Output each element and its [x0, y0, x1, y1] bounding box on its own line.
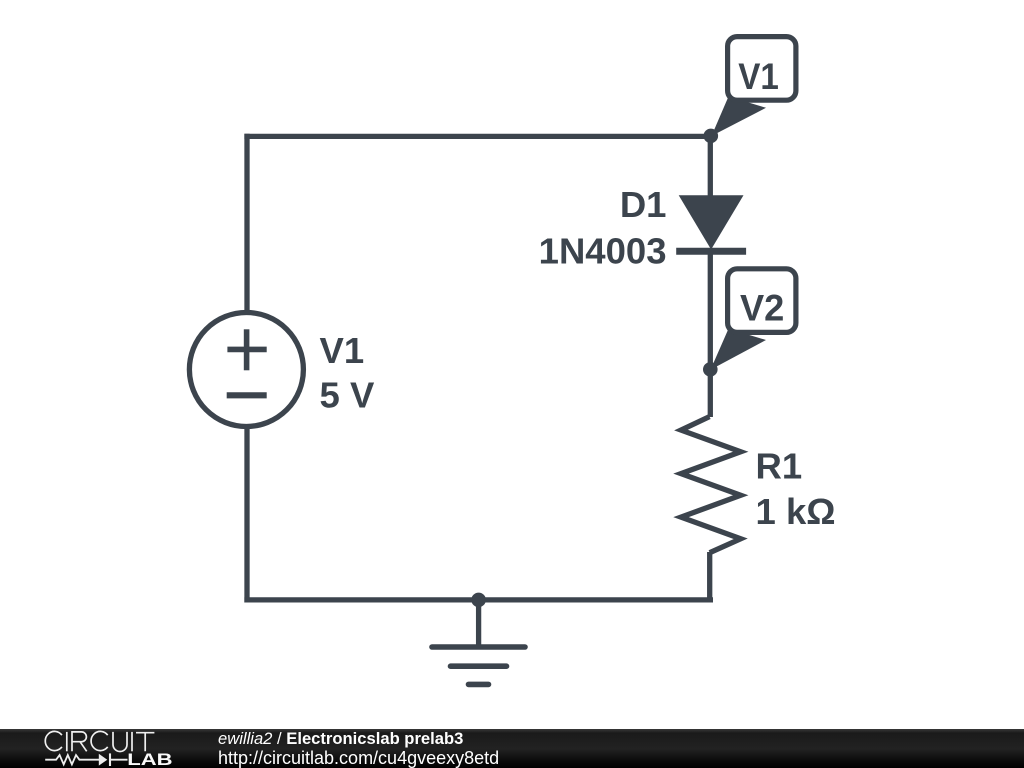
CircuitLab logo wordmark CIRCUIT [0, 729, 220, 768]
node V1 junction dot [704, 129, 719, 144]
wire bottom (source - to R1 bottom, through ground node) [244, 597, 713, 602]
svg-text:V1: V1 [320, 330, 365, 371]
wire right lower (R1 bottom to bottom corner) [707, 552, 712, 603]
svg-text:D1: D1 [620, 184, 667, 225]
wire right upper (node V1 to D1 anode) [708, 134, 713, 197]
svg-text:1 kΩ: 1 kΩ [756, 491, 836, 532]
svg-text:V1: V1 [738, 55, 779, 97]
diode D1 (triangle + cathode bar) [676, 195, 746, 251]
label R1 1 kOhm (resistor name and value) [756, 446, 836, 533]
voltage flag V2 (node label callout) [711, 269, 796, 370]
node ground junction dot [471, 593, 486, 608]
ground symbol [432, 647, 525, 684]
wire left vertical lower (source - to bottom corner) [244, 427, 249, 603]
node V2 junction dot [703, 362, 718, 377]
svg-text:LAB: LAB [127, 750, 172, 768]
svg-text:V2: V2 [740, 287, 784, 329]
svg-text:R1: R1 [756, 446, 803, 487]
svg-text:5 V: 5 V [320, 375, 375, 416]
wire left vertical upper (corner to source +) [244, 134, 249, 312]
label V1 5 V (source value) [320, 330, 375, 416]
voltage flag V1 (node label callout) [712, 37, 796, 136]
wire top (V1+ to diode anode) [244, 134, 710, 139]
footer credit line author/title [218, 731, 463, 748]
footer url [218, 749, 499, 767]
footer bar [0, 729, 1024, 768]
wire right middle (D1 cathode through node V2 to R1 top) [708, 251, 713, 417]
svg-text:1N4003: 1N4003 [539, 231, 667, 272]
voltage source V1 (circle with plus and minus) [189, 313, 303, 427]
CircuitLab logo resistor-diode symbol [45, 753, 127, 766]
ground stub wire [476, 600, 481, 647]
resistor R1 zigzag [681, 417, 741, 553]
label D1 1N4003 (diode name and value) [539, 184, 667, 272]
